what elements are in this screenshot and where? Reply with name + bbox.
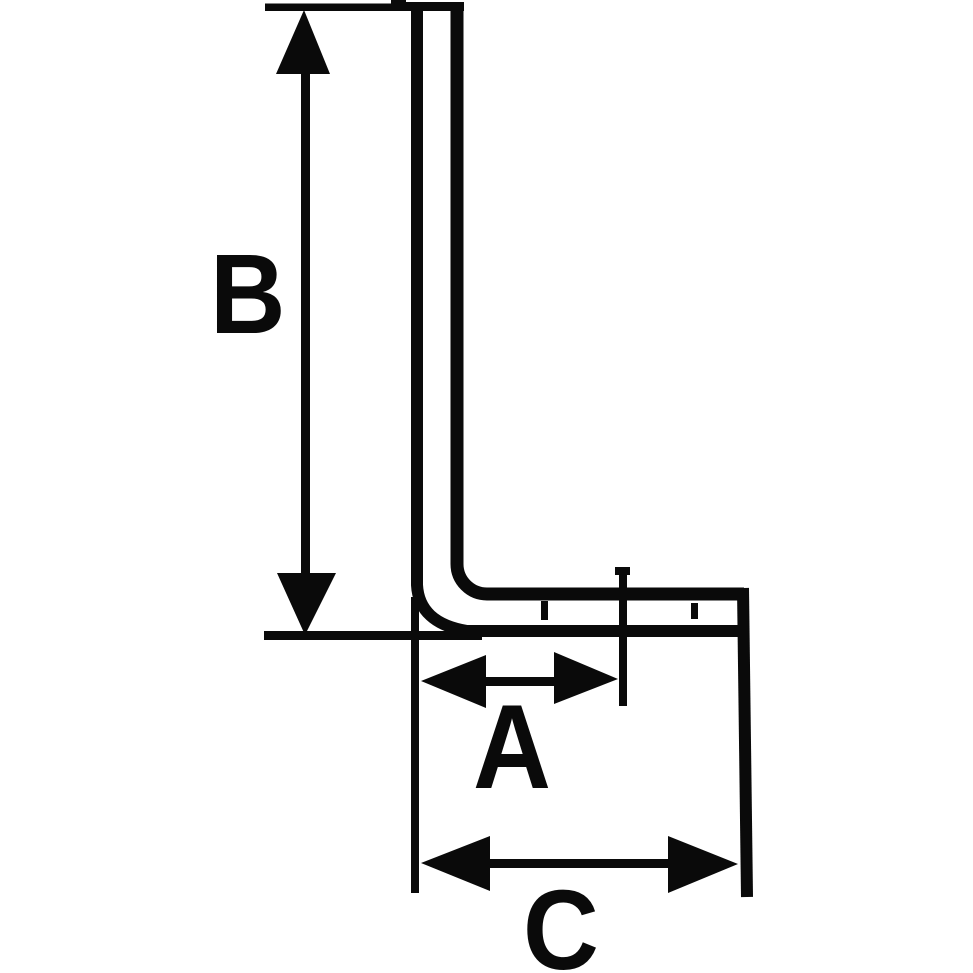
wire right extension line for dimension A (619, 567, 627, 706)
node small cap on top of A right extension (615, 567, 630, 575)
node label B (210, 231, 285, 358)
node tube top cap (404, 2, 464, 11)
wire top extension line for dimension B (265, 4, 463, 12)
node dimension C left arrowhead (421, 836, 490, 891)
wire bottom extension line for dimension B (264, 631, 482, 640)
wire dimension B line (301, 70, 310, 577)
node label C (523, 868, 599, 973)
node dimension A right arrowhead (554, 652, 618, 704)
node dimension C right arrowhead (668, 836, 738, 893)
svg-text:B: B (210, 231, 285, 358)
wire left extension line for dimensions A and C (411, 597, 419, 893)
wire dimension A line (482, 677, 558, 686)
node tube inner contour (right wall, inner bend, top of horizontal leg) (457, 8, 744, 594)
node dimension B upper arrowhead (276, 10, 330, 74)
svg-text:C: C (523, 868, 599, 973)
node tick mark 1 on horizontal leg (541, 601, 548, 620)
node dimension A left arrowhead (421, 655, 486, 708)
wire tube end cap and right extension line for dimension C (743, 588, 747, 897)
node dimension B lower arrowhead (277, 573, 336, 635)
wire dimension C line (486, 859, 672, 868)
node tube outer contour (left wall, outer bend, bottom of horizontal leg) (417, 5, 744, 631)
wire small bump on top extension line (391, 0, 406, 7)
svg-text:A: A (473, 681, 551, 814)
node label A (473, 681, 551, 814)
node tick mark 2 on horizontal leg (691, 603, 698, 619)
